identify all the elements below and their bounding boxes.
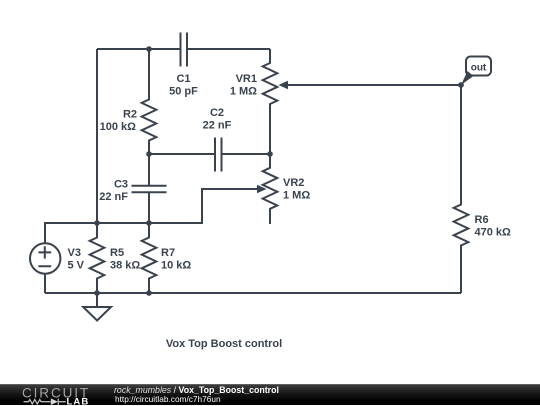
svg-text:R6: R6 bbox=[475, 214, 489, 226]
svg-text:38 kΩ: 38 kΩ bbox=[110, 259, 140, 271]
svg-text:out: out bbox=[471, 62, 487, 73]
svg-text:470 kΩ: 470 kΩ bbox=[475, 226, 512, 238]
svg-text:1 MΩ: 1 MΩ bbox=[230, 85, 257, 97]
svg-text:5 V: 5 V bbox=[68, 259, 85, 271]
svg-text:V3: V3 bbox=[68, 247, 81, 259]
svg-text:VR1: VR1 bbox=[236, 73, 257, 85]
svg-text:VR2: VR2 bbox=[283, 177, 304, 189]
svg-text:22 nF: 22 nF bbox=[203, 119, 232, 131]
svg-text:Vox Top Boost control: Vox Top Boost control bbox=[166, 338, 282, 350]
svg-text:C3: C3 bbox=[114, 179, 128, 191]
svg-text:50 pF: 50 pF bbox=[169, 85, 198, 97]
svg-text:100 kΩ: 100 kΩ bbox=[100, 121, 137, 133]
svg-text:22 nF: 22 nF bbox=[99, 191, 128, 203]
svg-text:R5: R5 bbox=[110, 247, 124, 259]
svg-text:R7: R7 bbox=[161, 247, 175, 259]
svg-text:10 kΩ: 10 kΩ bbox=[161, 259, 191, 271]
svg-text:C1: C1 bbox=[176, 73, 190, 85]
svg-text:1 MΩ: 1 MΩ bbox=[283, 189, 310, 201]
svg-text:C2: C2 bbox=[210, 107, 224, 119]
svg-text:R2: R2 bbox=[123, 109, 137, 121]
